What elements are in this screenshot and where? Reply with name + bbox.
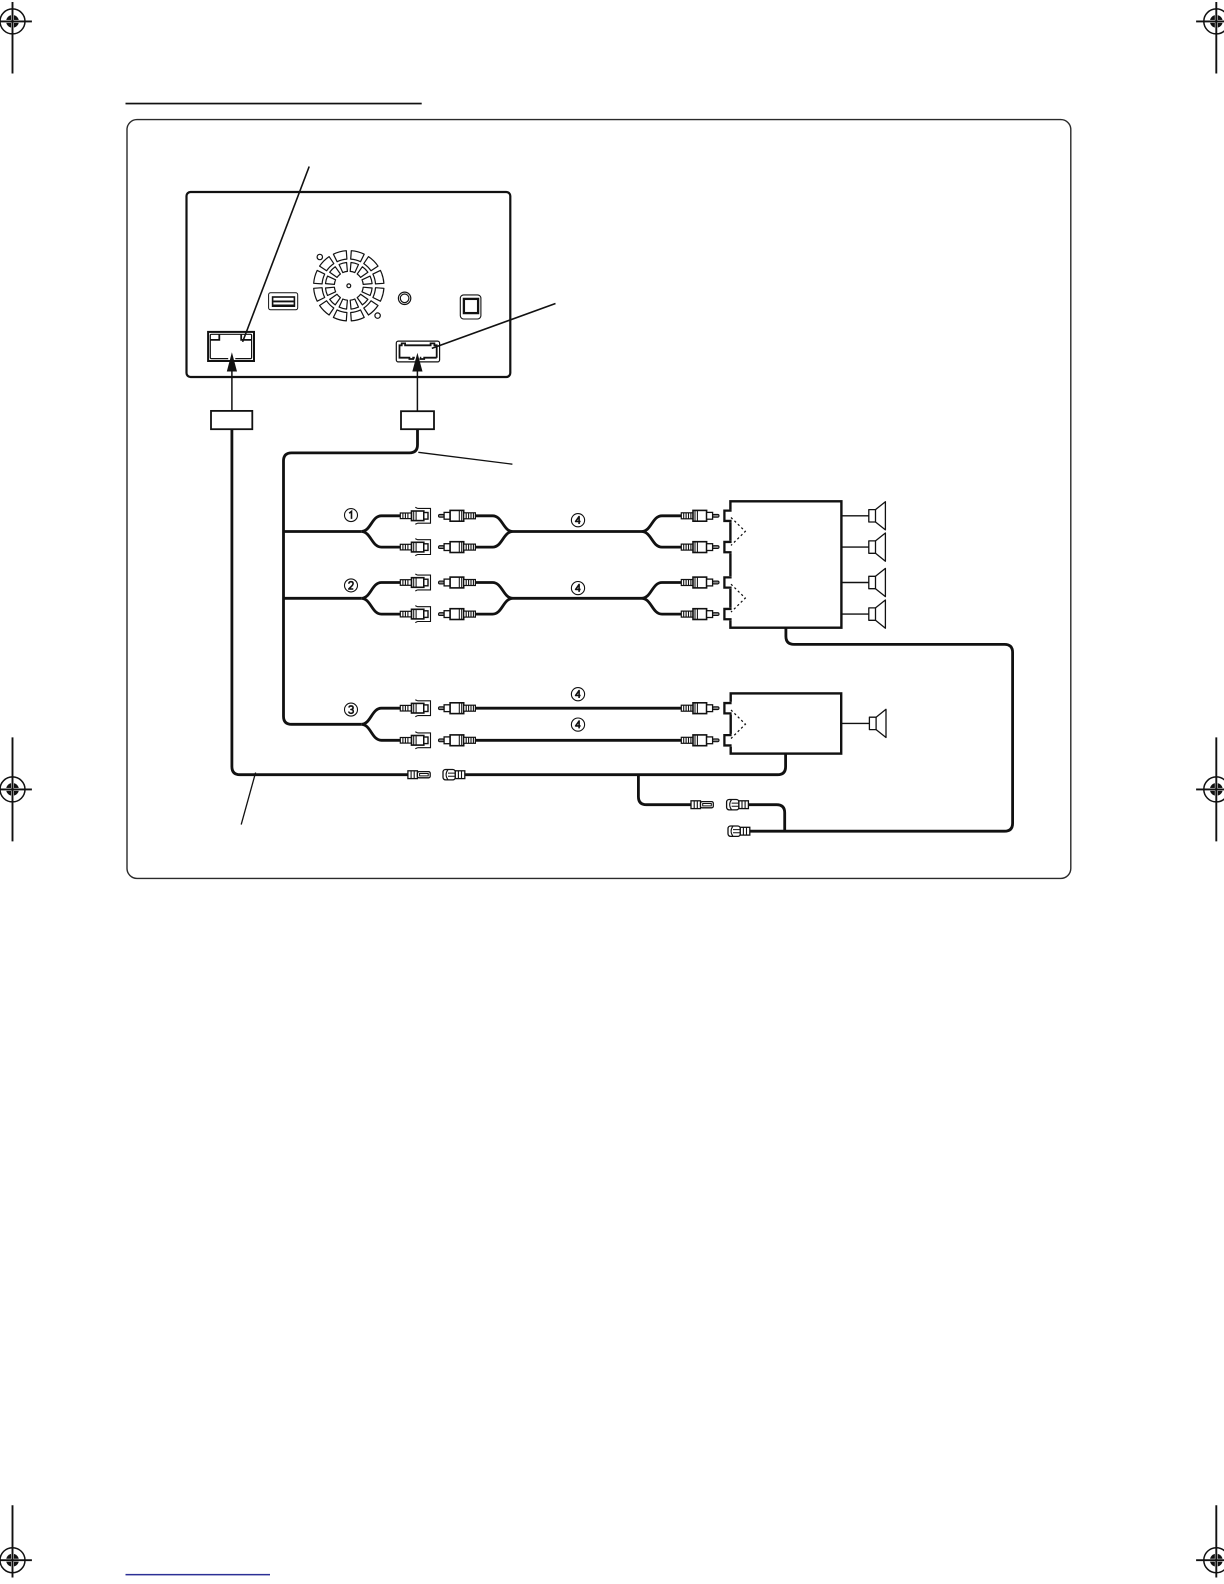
RCA plug into amp 1 input 3 xyxy=(681,577,719,588)
RCA plug into amp 1 input 2 xyxy=(681,542,719,553)
speaker line 4 xyxy=(841,613,868,615)
speaker front-right xyxy=(869,533,886,561)
RCA plug into amp 1 input 4 xyxy=(681,609,719,620)
RCA female front-out lower xyxy=(400,539,430,556)
spade terminal male (power lead) xyxy=(408,771,430,779)
amplifier 2 box xyxy=(731,693,842,753)
registration mark bottom-right xyxy=(1196,1505,1224,1577)
label 4 front cable xyxy=(571,514,584,527)
leader line to power lead xyxy=(241,773,255,825)
USB port xyxy=(269,293,298,310)
RCA male plug subwoofer lower xyxy=(439,735,476,746)
spade terminal female (from amp 1 remote) xyxy=(727,800,749,810)
spade terminal female (to amp 2) xyxy=(443,770,465,780)
wire: harness cable from right connector xyxy=(284,429,418,724)
left connector (power) xyxy=(208,332,254,361)
square button xyxy=(460,295,481,319)
wire: power lead from left connector xyxy=(232,429,408,775)
right connector (ISO) xyxy=(396,341,439,362)
registration mark top-right xyxy=(1196,2,1224,74)
wire: female spade jog down xyxy=(748,805,784,832)
right connector arrow xyxy=(412,353,422,412)
label 4 sub cable upper xyxy=(571,688,584,701)
fan grille xyxy=(314,251,384,321)
crossover chevron sub xyxy=(731,710,745,739)
left harness box xyxy=(211,411,252,429)
speaker rear-left xyxy=(869,568,886,596)
aux jack circle xyxy=(398,292,410,304)
crossover chevron rear xyxy=(731,584,745,612)
fan screw hole bottom-right xyxy=(375,313,380,318)
leader line to right connector xyxy=(432,304,556,349)
spade terminal male (remote branch) xyxy=(691,801,713,809)
wire: group 1 merge and run xyxy=(475,516,681,547)
wire: branch 2 stub xyxy=(284,597,362,600)
registration mark bottom-left xyxy=(0,1505,32,1577)
RCA male plug subwoofer upper xyxy=(439,703,476,714)
RCA plug into amp 2 input 1 xyxy=(681,703,719,714)
right harness box xyxy=(401,411,434,429)
speaker line 3 xyxy=(841,582,868,584)
wire: remote lead to amplifier 2 xyxy=(465,753,786,775)
speaker front-left xyxy=(869,502,886,530)
label 3 xyxy=(345,703,358,716)
leader line to harness cable xyxy=(418,452,512,464)
head unit rear panel xyxy=(187,192,511,377)
registration mark middle-right xyxy=(1196,737,1224,841)
wire: group 3 wishbone left xyxy=(361,708,400,740)
RCA female rear-out lower xyxy=(400,606,430,623)
registration mark top-left xyxy=(0,2,32,74)
label 2 xyxy=(345,579,358,592)
RCA female subwoofer upper xyxy=(400,700,430,717)
label 4 rear cable xyxy=(571,582,584,595)
RCA female rear-out upper xyxy=(400,574,430,591)
RCA female subwoofer lower xyxy=(400,732,430,749)
leader line to left connector xyxy=(243,167,310,342)
wire: remote branch with male spade xyxy=(638,775,691,805)
RCA male plug front-out upper xyxy=(439,510,476,521)
amp 1 input socket 2 xyxy=(722,541,733,554)
fan screw hole top-left xyxy=(317,254,322,259)
RCA female front-out upper xyxy=(400,507,430,524)
amp 2 input socket 1 xyxy=(722,702,733,715)
wire: amplifier 1 remote lead xyxy=(750,627,1013,831)
speaker line 2 xyxy=(841,546,868,548)
amp 1 input socket 1 xyxy=(722,509,733,522)
wire: group 2 wishbone left xyxy=(361,583,400,615)
spade terminal female (spare remote) xyxy=(728,826,750,836)
speaker rear-right xyxy=(869,600,886,628)
wire: branch 1 stub xyxy=(284,530,362,533)
amplifier 1 box xyxy=(730,501,841,627)
amp 2 input socket 2 xyxy=(722,734,733,747)
crossover chevron front xyxy=(731,518,745,546)
RCA male plug rear-out lower xyxy=(439,609,476,620)
RCA plug into amp 1 input 1 xyxy=(681,510,719,521)
bottom blue rule xyxy=(126,1574,271,1576)
RCA male plug front-out lower xyxy=(439,542,476,553)
wire: group 2 merge and run xyxy=(475,583,681,615)
speaker line 1 xyxy=(841,515,868,517)
label 1 xyxy=(345,509,358,522)
left connector arrow xyxy=(227,352,237,411)
wire: group 1 wishbone left xyxy=(361,516,400,547)
RCA male plug rear-out upper xyxy=(439,577,476,588)
registration mark middle-left xyxy=(0,737,32,841)
heading underline rule xyxy=(126,103,422,105)
subwoofer line xyxy=(841,722,869,724)
label 4 sub cable lower xyxy=(571,718,584,731)
figure frame xyxy=(127,120,1071,879)
amp 1 input socket 4 xyxy=(722,608,733,621)
wire: group 3 runs to amp 2 xyxy=(475,708,681,740)
amp 1 input socket 3 xyxy=(722,576,733,589)
subwoofer speaker xyxy=(869,709,886,737)
RCA plug into amp 2 input 2 xyxy=(681,735,719,746)
